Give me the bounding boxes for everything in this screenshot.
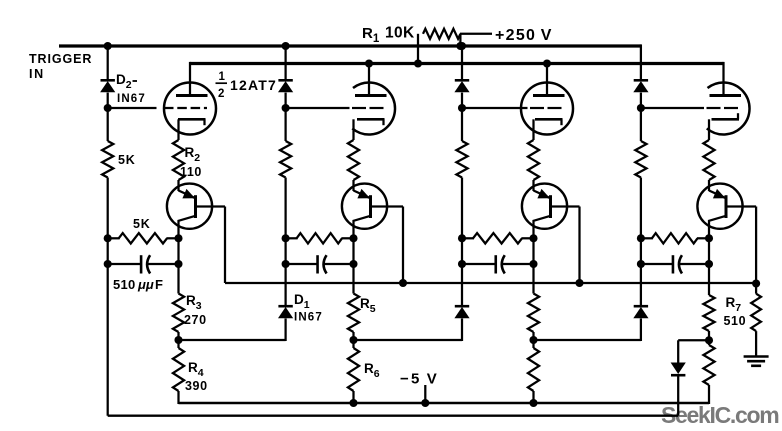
tube V3 plate	[533, 94, 565, 97]
label 10K	[385, 25, 415, 42]
resistor cathode stage4	[703, 140, 714, 180]
svg-text:10K: 10K	[385, 25, 415, 42]
transistor Q1 body	[167, 184, 212, 229]
wire R1 right drop	[459, 34, 461, 46]
wire stage3-stage4 coupling	[534, 339, 641, 341]
svg-text:−5 V: −5 V	[400, 371, 439, 388]
capacitor coupling stage2	[286, 255, 354, 273]
wire plate supply rail	[190, 62, 724, 65]
wire base drop stage2	[402, 207, 404, 284]
wire cathode resistor to transistor stage3	[532, 180, 534, 191]
wire stage4 lower leads	[708, 340, 710, 404]
transistor Q3 body	[522, 184, 567, 229]
svg-text:2: 2	[218, 88, 224, 100]
junction R1 left to plate rail	[414, 59, 422, 67]
svg-text:5K: 5K	[118, 153, 136, 167]
transistor Q4 collector	[709, 216, 726, 239]
wire diode to grid node stage2	[284, 93, 286, 108]
resistor coupling stage3	[473, 233, 522, 243]
wire base drop stage1	[224, 207, 226, 284]
label TRIGGER	[29, 52, 92, 66]
transistor Q3 emitter	[534, 189, 551, 199]
junction plate rail tube2	[365, 59, 373, 67]
wire cathode resistor to transistor stage4	[708, 180, 710, 191]
wire rows link left stage3	[461, 238, 463, 264]
junction row resistor right stage1	[174, 234, 182, 242]
junction grid node stage2	[282, 104, 290, 112]
junction cap right stage1	[174, 260, 182, 268]
junction grid node stage3	[458, 104, 466, 112]
junction bus stage3	[575, 279, 583, 287]
wire base drop stage3	[578, 207, 580, 284]
wire stage3 resistor leads	[532, 264, 534, 340]
svg-text:12AT7: 12AT7	[230, 77, 277, 93]
tube V2 grid	[352, 107, 384, 109]
junction cap left stage1	[104, 260, 112, 268]
junction cap left stage2	[282, 260, 290, 268]
label R5	[360, 296, 376, 315]
resistor cathode stage2	[348, 140, 359, 180]
resistor stage4 lower	[703, 345, 714, 385]
label R3	[186, 293, 202, 312]
wire R4 to -5V rail	[177, 391, 179, 404]
junction trigger rail stage3	[458, 42, 466, 50]
junction stage3 rail	[529, 399, 537, 407]
wire stage1-stage2 coupling	[179, 339, 286, 341]
transistor Q1 collector	[179, 216, 196, 239]
transistor Q4 base lead	[726, 205, 756, 207]
tube V2 plate	[355, 94, 387, 97]
node -5V label	[400, 371, 439, 388]
capacitor coupling stage1 510uuF	[108, 255, 179, 273]
wire R3 to junction	[177, 332, 179, 340]
resistor R4 390	[173, 348, 184, 391]
wire -5V rail	[179, 402, 710, 404]
wire rows link right stage4	[708, 238, 710, 264]
junction bus stage2	[399, 279, 407, 287]
wire diode to grid node stage4	[640, 93, 642, 108]
wire feedback diode bottom	[677, 375, 679, 416]
tube V1 plate riser	[189, 62, 191, 94]
transistor Q2 collector	[354, 216, 371, 239]
wire stage4 junction to feedback diode	[678, 339, 709, 341]
resistor stage3 lower	[528, 348, 539, 391]
tube V1 cathode	[178, 119, 206, 140]
svg-text:IN67: IN67	[117, 93, 146, 105]
svg-text:110: 110	[180, 165, 202, 179]
wire grid node down stage4	[640, 108, 642, 141]
wire grid-leak to row stage1	[107, 178, 109, 239]
label D1 IN67	[294, 312, 323, 324]
label D2	[116, 72, 137, 91]
transistor Q3 collector	[534, 216, 551, 239]
junction grid node stage1	[104, 104, 112, 112]
transistor Q4 body	[697, 184, 742, 229]
svg-text:270: 270	[184, 313, 207, 327]
tube V4 envelope	[707, 82, 750, 134]
svg-text:390: 390	[185, 379, 208, 393]
label 510	[724, 314, 747, 328]
transistor Q2 emitter	[354, 189, 371, 199]
wire stage4 resistor leads	[708, 264, 710, 340]
wire R7 to ground	[755, 331, 757, 356]
node +250V	[495, 27, 553, 44]
capacitor coupling stage3	[462, 255, 534, 273]
junction stage4 resistors	[705, 336, 713, 344]
resistor stage4 upper	[703, 295, 714, 331]
wire grid node down stage3	[461, 108, 463, 141]
feedback diode	[671, 363, 686, 376]
tube V3 cathode	[534, 119, 563, 140]
junction grid node stage4	[637, 104, 645, 112]
label 270	[184, 313, 207, 327]
wire trigger to diode stage3	[461, 46, 463, 80]
wire grid-leak to row stage3	[461, 178, 463, 239]
resistor R7 510	[751, 294, 761, 331]
label 510uuF	[113, 277, 163, 292]
junction trigger rail stage2	[282, 42, 290, 50]
label R2	[185, 145, 201, 164]
junction R6 rail	[349, 399, 357, 407]
wire grid stage2	[286, 107, 350, 109]
tube V1 envelope	[164, 83, 216, 135]
transistor Q4 base bar	[725, 195, 728, 218]
label R7	[726, 295, 742, 314]
junction row resistor right stage2	[349, 234, 357, 242]
svg-text:F: F	[155, 277, 163, 292]
wire rows link right stage2	[352, 238, 354, 264]
wire D2 to grid node	[107, 93, 109, 108]
capacitor coupling stage4	[641, 255, 709, 273]
transistor Q1 base bar	[194, 195, 197, 218]
label R4	[188, 360, 204, 379]
junction R5 R6	[349, 336, 357, 344]
ground symbol	[744, 357, 769, 366]
transistor Q2 base lead	[371, 205, 404, 207]
wire stage3 diode column	[461, 264, 463, 341]
resistor cathode stage1 R2 110	[173, 140, 184, 180]
wire cathode resistor to transistor stage1	[177, 180, 179, 191]
wire grid stage3	[462, 107, 528, 109]
wire grid node down stage2	[284, 108, 286, 141]
resistor R6	[348, 348, 359, 391]
wire stage3 lower leads	[532, 340, 534, 403]
wire row resistor stubs stage2	[286, 237, 354, 239]
resistor R3 270	[173, 294, 184, 333]
diode stage3 lower	[454, 306, 469, 318]
resistor grid-leak stage3	[456, 141, 467, 178]
tube V3 envelope	[521, 83, 573, 135]
wire rows link left stage2	[284, 238, 286, 264]
resistor R1 10K	[423, 29, 460, 39]
resistor grid-leak stage1 5K	[102, 141, 113, 178]
tube V2 plate riser	[368, 62, 370, 94]
wire trigger to diode stage2	[284, 46, 286, 80]
wire cathode resistor to transistor stage2	[352, 180, 354, 191]
resistor coupling stage1 5K	[119, 233, 167, 243]
tube V3 plate riser	[546, 62, 548, 94]
junction cap right stage2	[349, 260, 357, 268]
junction cap left stage3	[458, 260, 466, 268]
junction row resistor left stage2	[282, 234, 290, 242]
label 390	[185, 379, 208, 393]
wire R6 leads	[352, 340, 354, 403]
junction stage3 resistors	[529, 336, 537, 344]
label half 12AT7	[216, 71, 277, 100]
wire feedback diode top	[677, 340, 679, 362]
wire R5 leads	[352, 264, 354, 340]
trigger diode stage3	[454, 80, 469, 92]
label 5K vertical	[118, 153, 136, 167]
wire R7 top lead	[755, 283, 757, 294]
wire row resistor stubs stage1	[108, 237, 179, 239]
tube V4 plate riser	[722, 62, 724, 94]
resistor grid-leak stage4	[635, 141, 646, 178]
wire base drop stage4	[755, 207, 757, 284]
tube V3 grid	[530, 107, 562, 109]
tube V4 plate	[710, 94, 742, 97]
wire row resistor stubs stage4	[641, 237, 709, 239]
junction cap right stage3	[529, 260, 537, 268]
label R6	[364, 361, 380, 380]
transistor Q3 base bar	[549, 195, 552, 218]
wire stage4 diode column	[640, 264, 642, 341]
junction -5V stub	[421, 399, 429, 407]
junction R3 R4	[174, 336, 182, 344]
transistor Q1 emitter	[179, 189, 196, 199]
diode D2	[100, 80, 115, 92]
junction cap left stage4	[637, 260, 645, 268]
wire collector node to R3	[177, 264, 179, 294]
label R1	[362, 25, 380, 45]
wire grid-leak to row stage2	[284, 178, 286, 239]
label 110	[180, 165, 202, 179]
watermark SeekIC.com	[661, 402, 779, 428]
diode D1	[278, 306, 293, 318]
tube V4 grid	[707, 107, 739, 109]
wire rows link left stage4	[640, 238, 642, 264]
wire trigger rail corner drop	[640, 44, 642, 80]
transistor Q1 base lead	[196, 205, 226, 207]
wire rows link right stage1	[177, 238, 179, 264]
junction row resistor left stage4	[637, 234, 645, 242]
label D2 IN67	[117, 93, 146, 105]
trigger diode stage2	[278, 80, 293, 92]
wire junction to R4	[177, 340, 179, 348]
label D1	[294, 292, 310, 311]
transistor Q4 emitter	[709, 189, 726, 199]
label 5K coupling	[133, 217, 151, 231]
svg-text:IN67: IN67	[294, 312, 323, 324]
resistor R5	[348, 294, 359, 333]
svg-text:510: 510	[724, 314, 747, 328]
wire stage2-stage3 coupling	[354, 339, 463, 341]
wire trigger input rail	[59, 44, 641, 47]
svg-text:IN: IN	[29, 67, 45, 81]
trigger diode stage4	[633, 80, 648, 92]
wire R1 to +250V	[460, 33, 492, 35]
wire grid-leak to row stage4	[640, 178, 642, 239]
tube V4 cathode	[709, 113, 739, 140]
svg-text:TRIGGER: TRIGGER	[29, 52, 92, 66]
wire common base bus	[225, 282, 756, 284]
junction row resistor left stage3	[458, 234, 466, 242]
wire grid stage4	[641, 107, 704, 109]
junction plate rail tube3	[543, 59, 551, 67]
junction bus R7	[752, 279, 760, 287]
junction R1 right to trigger rail	[456, 42, 464, 50]
transistor Q2 base bar	[369, 195, 372, 218]
wire rows link left stage1	[107, 238, 109, 264]
transistor Q2 body	[342, 184, 387, 229]
resistor stage3 upper	[528, 294, 539, 333]
tube V1 plate	[176, 94, 208, 97]
wire rows link right stage3	[532, 238, 534, 264]
resistor coupling stage4	[652, 233, 698, 243]
wire trigger to D2	[107, 46, 109, 80]
tube V1 grid	[164, 107, 207, 109]
wire feedback bottom line	[108, 415, 679, 417]
svg-text:1: 1	[219, 71, 226, 83]
diode stage4 lower	[633, 306, 648, 318]
junction row resistor left stage1	[104, 234, 112, 242]
label IN	[29, 67, 45, 81]
svg-text:μμ: μμ	[137, 277, 154, 292]
tube V2 envelope	[352, 82, 395, 134]
resistor grid-leak stage2	[280, 141, 291, 178]
wire -5V stub	[424, 385, 426, 403]
svg-text:510: 510	[113, 277, 136, 292]
junction row resistor right stage3	[529, 234, 537, 242]
svg-text:+250 V: +250 V	[495, 27, 553, 44]
svg-text:5K: 5K	[133, 217, 151, 231]
resistor cathode stage3	[528, 140, 539, 180]
resistor R1 lead left	[417, 34, 419, 64]
wire grid stage1	[108, 107, 157, 109]
wire D1 column	[284, 264, 286, 341]
wire stage1 left column down	[107, 264, 109, 416]
wire diode to grid node stage3	[461, 93, 463, 108]
transistor Q3 base lead	[551, 205, 580, 207]
tube V2 cathode	[354, 119, 385, 140]
junction cap right stage4	[705, 260, 713, 268]
junction row resistor right stage4	[705, 234, 713, 242]
wire grid node down stage1	[107, 108, 109, 141]
wire row resistor stubs stage3	[462, 237, 534, 239]
resistor coupling stage2	[297, 233, 342, 243]
junction trigger rail stage1	[104, 42, 112, 50]
